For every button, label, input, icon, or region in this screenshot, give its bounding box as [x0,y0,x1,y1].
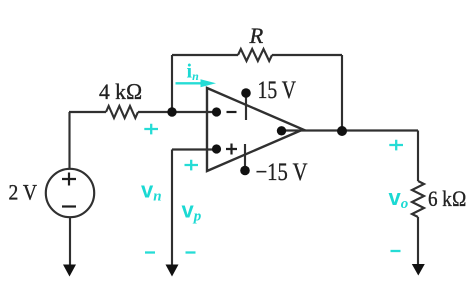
svg-text:vn: vn [141,178,162,205]
svg-text:4 kΩ: 4 kΩ [99,79,143,104]
resistor 4 kOhm zigzag [106,106,138,118]
wire: source branch vertical upper [68,112,70,169]
minus sign for v_n [145,251,155,253]
ground arrow under 6k resistor [412,264,425,276]
svg-text:2 V: 2 V [9,180,38,205]
wire: source top to 4k resistor [69,111,106,113]
wire: plus input to corner [172,148,216,150]
node: op-amp noninverting terminal dot [212,144,221,153]
op-amp minus input sign [227,111,237,113]
wire: resistor R to feedback right corner [272,54,342,56]
plus sign for v_p [185,160,199,171]
wire: inverting node to op-amp minus input [172,111,216,113]
label: 2 V source value [9,180,38,205]
ground arrow under plus input wire [166,265,179,277]
label: R value (italic) [249,23,264,48]
wire: op-amp output to output node [281,129,342,131]
wire: feedback top left to resistor R [172,54,238,56]
label: i_n current [187,61,200,84]
wire: 4k resistor to inverting node [138,111,172,113]
wire: -15V supply stub [244,144,246,171]
plus sign for v_o [389,140,403,151]
current arrow i_n [176,79,217,87]
label: 15 V supply [258,77,297,104]
label: v_p voltage [182,198,202,225]
resistor R zigzag [238,49,272,61]
resistor 6 kOhm zigzag [412,181,424,217]
wire: feedback left vertical [171,55,173,112]
wire: output node to load corner [342,129,418,131]
label: v_n voltage [141,178,162,205]
svg-text:R: R [249,23,264,48]
svg-text:6 kΩ: 6 kΩ [428,186,467,211]
node: -15V terminal dot [240,166,250,176]
wire: corner down to ground arrow [171,150,173,266]
source minus sign [62,205,76,207]
source plus sign [62,173,76,186]
wire: load corner down to 6k resistor [417,131,419,182]
plus sign for v_n [144,124,158,135]
label: 6 kOhm value [428,186,467,211]
label: 4 kOhm value [99,79,143,104]
voltage source 2V circle [46,169,94,217]
svg-text:15 V: 15 V [258,77,297,104]
node: inverting input junction [167,107,176,116]
wire: +15V supply stub [245,93,247,120]
wire: 6k resistor to ground arrow [417,217,419,265]
minus sign for v_p [186,251,196,253]
node: output junction [337,126,347,136]
svg-text:vo: vo [389,185,409,212]
node: op-amp inverting terminal dot [212,107,221,116]
ground arrow under source [63,265,76,277]
op-amp U1 triangle [207,88,303,171]
label: v_o voltage [389,185,409,212]
node: +15V terminal dot [241,88,251,98]
wire: source bottom to ground arrow [69,218,71,266]
svg-text:in: in [187,61,200,84]
svg-text:−15 V: −15 V [256,159,308,186]
op-amp plus input sign [226,144,237,155]
svg-text:vp: vp [182,198,202,225]
label: -15 V supply [256,159,308,186]
wire: feedback right vertical to output node [341,55,343,131]
node: op-amp output terminal dot [277,126,286,135]
minus sign for v_o [391,250,401,252]
